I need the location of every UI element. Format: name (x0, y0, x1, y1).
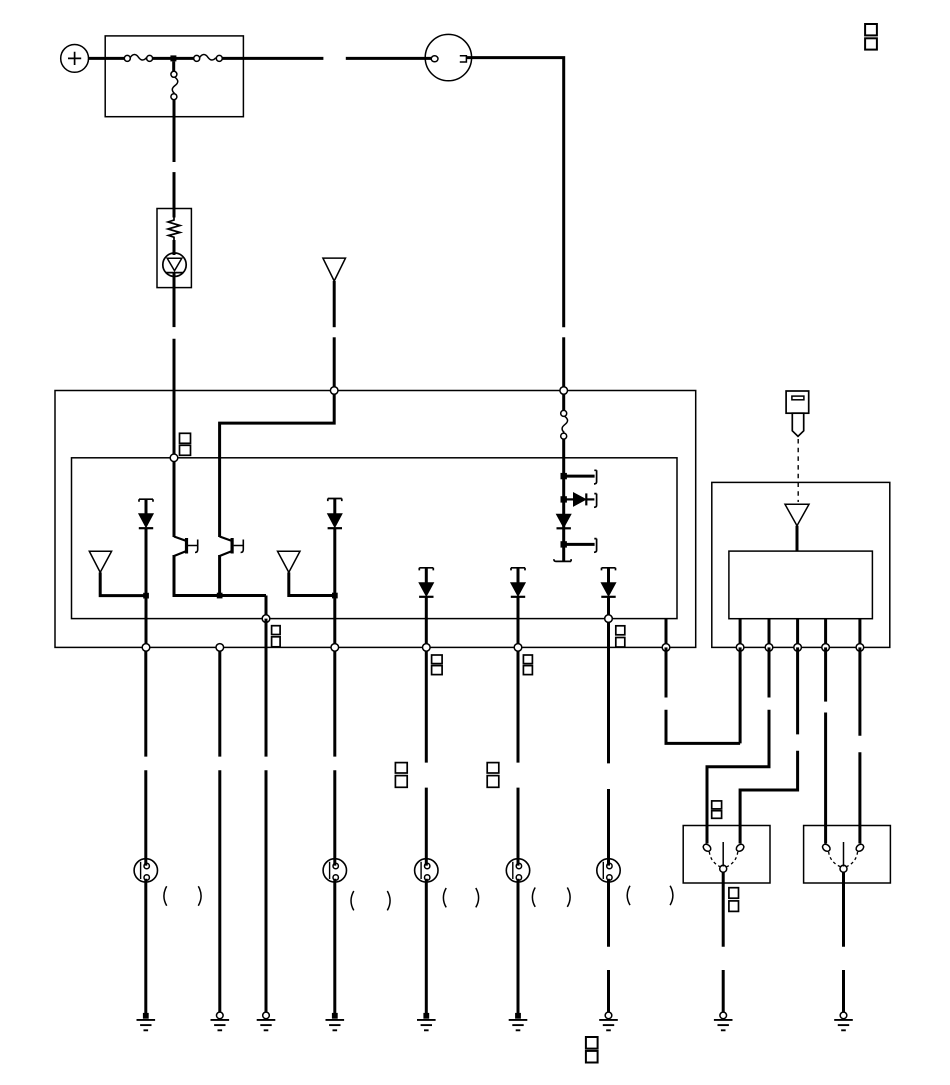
key symbol (786, 391, 809, 436)
bulb L1 (134, 859, 157, 882)
switch 2 contacts (821, 842, 865, 872)
junction node E (561, 496, 567, 502)
label boxes wire code (586, 1037, 598, 1049)
wire jog to transistor Q2 collector (220, 391, 335, 538)
wire column 1 upper (144, 651, 147, 756)
diode D1 (139, 499, 153, 647)
diode D7 (601, 568, 615, 619)
label boxes wire code (523, 655, 532, 664)
wire column 2 lower (218, 770, 221, 1012)
ground G1 (137, 1013, 156, 1030)
wire pin4 down (824, 647, 827, 843)
wire stub output (665, 619, 668, 648)
indicator lamp box (157, 209, 191, 288)
wire column 6 upper (517, 651, 520, 762)
wire to indicator box after gap (173, 172, 176, 210)
label boxes wire code (395, 763, 407, 773)
amplifier triangle 1 (89, 551, 111, 572)
bulb L5 (597, 859, 620, 882)
label boxes top right (865, 24, 877, 35)
wire column 6 to bulb (517, 788, 520, 866)
connector circle inner box top (170, 454, 178, 462)
wire bulb L1 to ground (144, 879, 147, 1013)
ground G7 (599, 1012, 618, 1030)
resistor (168, 209, 180, 241)
wire battery to fuse box (89, 57, 126, 60)
wire pin5 down (858, 647, 861, 843)
label boxes wire code (616, 626, 625, 635)
bulb L4 (506, 859, 529, 882)
bulb L1 rating parens (164, 886, 167, 905)
bulb L4 rating parens (532, 888, 535, 907)
wire column 2 upper (218, 651, 221, 756)
fuse 3 vertical (171, 61, 178, 99)
wire column 7 to bulb (607, 789, 610, 866)
wire pin2 to door switch (707, 647, 769, 843)
wire down to control box after gap (562, 337, 565, 390)
wire antenna down (333, 281, 336, 327)
internal tie bar 1 (566, 475, 595, 478)
module pin 1 (739, 619, 742, 648)
wire column 7 upper (607, 622, 610, 763)
bulb L2 (323, 859, 346, 882)
wire fuse1 to junction (153, 57, 194, 60)
ground G6 (509, 1013, 528, 1030)
diode D2 (328, 499, 342, 648)
wire column 5 upper (425, 651, 428, 762)
wire bulb L2 to ground (333, 879, 336, 1013)
diode D3 right (566, 493, 597, 508)
wire bulb L4 to ground (517, 879, 520, 1013)
internal termination bar (554, 559, 571, 561)
dashed key signal line (797, 439, 799, 502)
wire antenna to box after gap (333, 337, 336, 390)
connector circles outer box top (330, 387, 338, 395)
bulb L3 (415, 859, 438, 882)
wire switch2 to ground (842, 872, 845, 1012)
wire bulb L5 down (607, 879, 610, 947)
wire pin3 to door switch (740, 647, 798, 843)
junction node A (143, 593, 149, 599)
wire lamp down (173, 274, 176, 328)
wire down into control unit after gap (173, 339, 176, 458)
bulb L2 rating parens (351, 891, 354, 910)
transistor Q2 (220, 537, 244, 598)
emitter bus wire (174, 594, 266, 597)
wire fuse3 down (173, 100, 176, 162)
control unit inner box (72, 458, 678, 619)
label boxes wire code (272, 626, 281, 635)
diode D6 (511, 568, 525, 648)
fuse box (105, 36, 243, 117)
gauge control unit outer box (55, 391, 696, 648)
wire stub to pin1 (666, 647, 740, 743)
receiver triangle (785, 504, 809, 525)
wire bus corner down (265, 596, 268, 619)
bulb L5 rating parens (627, 886, 630, 905)
immobilizer unit box (712, 482, 890, 647)
wire column 5 to bulb (425, 788, 428, 866)
wire column 3 upper (265, 619, 268, 757)
junction node C (332, 593, 338, 599)
label boxes wire code (487, 763, 499, 773)
label boxes wire code (712, 801, 722, 809)
ground G3 (257, 1012, 276, 1030)
immobilizer module block (729, 551, 873, 619)
fuse 2 (194, 55, 223, 62)
wire internal column (562, 439, 565, 561)
wire column 1 to bulb (144, 770, 147, 865)
indicator LED lamp (163, 240, 186, 276)
wire column 4 to bulb (333, 770, 336, 865)
module pin 4 (824, 619, 827, 648)
junction node D (561, 473, 567, 479)
wire switch1 to ground (722, 872, 725, 1012)
ground G9 (834, 1012, 853, 1030)
transistor Q1 (174, 458, 198, 597)
amplifier triangle 2 (278, 551, 301, 572)
ground G4 (326, 1013, 345, 1030)
module pin 3 (796, 619, 799, 648)
connector circles unit box bottom (736, 644, 744, 652)
module pin 5 (858, 619, 861, 648)
ground G5 (417, 1013, 436, 1030)
wire column 3 lower (265, 770, 268, 1012)
diode D4 down (557, 514, 571, 528)
wire pin1 down (739, 647, 742, 743)
wire triangle1 to node (100, 572, 146, 595)
module pin 2 (768, 619, 771, 648)
door switch box 1 (683, 826, 770, 884)
wire triangle2 to node (289, 572, 335, 595)
label boxes wire code (432, 655, 443, 664)
fuse 4 internal (561, 391, 568, 440)
connector circles inner box bottom (262, 615, 270, 623)
switch 1 contacts (702, 842, 745, 872)
battery positive terminal (61, 45, 89, 73)
junction fuse node (170, 55, 176, 61)
wire fuse2 to ignition switch (222, 57, 323, 60)
bulb L3 rating parens (443, 888, 446, 907)
fuse 1 (124, 55, 152, 62)
internal tie bar 2 (566, 543, 595, 546)
wire to ground G7 (607, 970, 610, 1012)
door switch box 2 (804, 826, 891, 884)
diode D5 (419, 568, 433, 648)
antenna triangle connector (323, 258, 346, 281)
wire segment after connector gap (346, 57, 431, 60)
ground G8 (714, 1012, 733, 1030)
label boxes wire code (180, 433, 191, 443)
wire receiver to module (796, 526, 799, 551)
wire ignition to corner and down (466, 58, 563, 328)
label boxes wire code (729, 888, 739, 899)
wire column 4 upper (333, 651, 336, 756)
junction node B (217, 593, 223, 599)
ground G2 (211, 1012, 230, 1030)
ignition switch (425, 34, 471, 80)
junction node F (561, 541, 567, 547)
wire bulb L3 to ground (425, 879, 428, 1013)
connector circles outer box bottom (142, 644, 150, 652)
